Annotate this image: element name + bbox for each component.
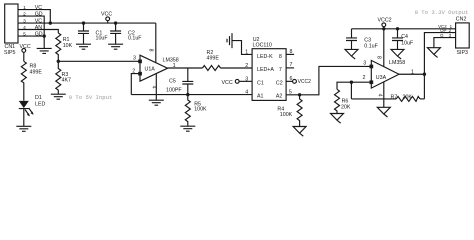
ground GND1 below R5 [180, 126, 195, 131]
svg-text:4: 4 [245, 90, 248, 96]
svg-text:8: 8 [147, 49, 153, 52]
capacitor C1 [78, 23, 89, 44]
svg-text:8: 8 [376, 56, 382, 59]
svg-text:VC: VC [35, 18, 43, 24]
wire CN1 pin1 VC to VCC rail [18, 10, 50, 24]
svg-text:5: 5 [289, 89, 292, 95]
svg-text:20K: 20K [341, 104, 351, 110]
op-amp U3A input marks [370, 65, 374, 69]
wire U2 pin1 LED-K to rotated ground [232, 41, 252, 55]
svg-text:4: 4 [23, 25, 26, 31]
svg-text:VCC2: VCC2 [298, 79, 312, 85]
ground GND2 triangle below U3A pin4 [377, 107, 390, 117]
wire U3A pin8 from VCC2 rail [383, 29, 385, 67]
LED D1 cathode bar and lead [19, 109, 29, 126]
capacitor C3 [346, 29, 357, 49]
junction node rail/pin1 [49, 21, 52, 24]
svg-text:5: 5 [23, 31, 26, 37]
svg-text:3: 3 [363, 61, 366, 67]
LED arrowheads [27, 113, 30, 116]
wire output node vertical to CN2 OP [424, 33, 455, 99]
wire U1A pin8 drop from VCC rail [155, 23, 157, 63]
power VCC symbol above R8 [22, 49, 26, 53]
ground GND2 triangle below CN2 G [427, 48, 440, 58]
svg-text:C4: C4 [401, 34, 408, 40]
resistor R8 zigzag [21, 61, 26, 100]
wire U2 pin7 stub [286, 67, 294, 69]
wire CN1 pin3 VC / VCC rail [18, 22, 156, 24]
svg-text:100K: 100K [194, 107, 207, 113]
svg-text:0.1uF: 0.1uF [128, 36, 142, 42]
svg-text:0 To 3.3V Output: 0 To 3.3V Output [415, 9, 469, 16]
resistor R3 zigzag [56, 61, 61, 94]
svg-text:GD: GD [35, 31, 43, 37]
svg-text:499E: 499E [30, 70, 43, 76]
wire R2 to U2 pin2 LED+A [221, 67, 253, 69]
svg-text:100PF: 100PF [166, 87, 182, 93]
svg-text:3: 3 [245, 76, 248, 82]
svg-text:G: G [440, 33, 444, 38]
ground GND2 triangle below C4 [391, 49, 404, 59]
wire U1A pin4 to ground [155, 74, 157, 100]
wire R1/R3 node to U1A pin3 [58, 60, 140, 62]
capacitor C5 [182, 68, 193, 95]
svg-text:U3A: U3A [376, 75, 387, 81]
svg-text:C1: C1 [257, 80, 264, 86]
svg-text:4: 4 [377, 94, 383, 97]
junction node VCC2 stem [382, 27, 385, 30]
junction node C2 [114, 21, 117, 24]
svg-text:6: 6 [290, 76, 293, 82]
resistor R2 zigzag [203, 66, 221, 71]
LED D1 triangle [19, 101, 29, 108]
svg-text:C5: C5 [169, 79, 176, 85]
resistor R5 zigzag [185, 95, 190, 126]
svg-text:10uF: 10uF [401, 40, 414, 46]
wire U3A output pin1 [399, 73, 424, 75]
wire U1A pin2 feedback loop down to A1 rail [131, 74, 140, 95]
svg-text:VCC: VCC [222, 80, 233, 86]
svg-text:8: 8 [279, 54, 282, 60]
svg-text:D1: D1 [35, 95, 42, 101]
power VCC symbol stub on rail [106, 17, 110, 21]
resistor R6 zigzag [335, 89, 340, 113]
ground GND1 below C2 [108, 44, 123, 49]
junction node C1 [82, 21, 85, 24]
svg-text:A2: A2 [276, 94, 283, 100]
svg-text:C2: C2 [276, 80, 283, 86]
svg-text:1: 1 [173, 63, 176, 69]
ground GND2 triangle below C3 [345, 49, 358, 59]
op-amp U1A triangle [140, 55, 168, 81]
wire U3A pin4 to ground [383, 82, 385, 107]
svg-text:100K: 100K [280, 112, 293, 118]
svg-text:LM358: LM358 [389, 60, 405, 66]
ground GND1 below C1 [76, 44, 91, 49]
svg-text:LED+A: LED+A [257, 67, 274, 73]
junction node R1/R3 [57, 60, 60, 63]
power VCC stub to U2 pin3 C1 [235, 79, 239, 83]
svg-text:0 To 5V Input: 0 To 5V Input [69, 94, 113, 101]
power VCC2 stub on U2 pin6 C2 [286, 80, 293, 82]
svg-text:LM358: LM358 [163, 57, 179, 63]
connector CN2 body [456, 23, 470, 48]
resistor R7 zigzag [396, 96, 420, 101]
svg-text:VCC: VCC [101, 12, 112, 18]
svg-text:LED: LED [35, 102, 45, 108]
LED D1 emission arrows [25, 108, 33, 116]
ground GND2 triangle below R4 [293, 127, 306, 137]
svg-text:2: 2 [245, 63, 248, 69]
svg-text:10K: 10K [63, 43, 73, 49]
svg-text:GD: GD [35, 11, 43, 17]
svg-text:CN1: CN1 [5, 44, 16, 50]
svg-text:1: 1 [245, 50, 248, 56]
svg-text:SIP3: SIP3 [457, 50, 469, 56]
junction node C4 [396, 27, 399, 30]
svg-text:7: 7 [290, 62, 293, 68]
svg-text:10uF: 10uF [96, 36, 109, 42]
ground GND1 below U1A pin4 [149, 100, 164, 105]
svg-text:2: 2 [363, 75, 366, 81]
wire U2 pin5 A2 to U3A pin3 [286, 66, 371, 94]
optocoupler U2 LOC110 box [252, 49, 286, 101]
svg-text:7: 7 [279, 67, 282, 73]
junction node C5/R5 [186, 93, 189, 96]
wire R7 to output node [420, 98, 424, 100]
wire CN1 pin4 AN to R1 [18, 30, 58, 34]
wire U2 pin8 stub [286, 53, 294, 55]
svg-text:2: 2 [132, 69, 135, 75]
junction node U3A pin2 feedback [350, 81, 353, 84]
wire U3A pin2 to R6 [337, 82, 371, 89]
svg-text:4: 4 [151, 86, 157, 89]
svg-text:0.1uF: 0.1uF [364, 44, 378, 50]
svg-text:AN: AN [35, 25, 43, 31]
svg-text:499E: 499E [207, 55, 220, 61]
wire U3A pin2 node down to R7 rail [350, 82, 352, 99]
svg-text:2: 2 [23, 11, 26, 17]
resistor R1 zigzag [56, 33, 61, 61]
svg-text:A1: A1 [257, 94, 264, 100]
wire CN2 pin3 G to ground [434, 38, 456, 48]
svg-text:VC: VC [35, 5, 43, 11]
junction node output/R7/OP [423, 73, 426, 76]
wire feedback rail to R7 [351, 98, 396, 100]
svg-text:U1A: U1A [145, 66, 156, 72]
resistor R4 zigzag [297, 95, 302, 126]
svg-text:20K: 20K [403, 95, 413, 101]
junction node GD [43, 34, 46, 37]
op-amp U3A triangle [371, 60, 399, 88]
ground GND1 below R3 [51, 94, 66, 99]
svg-text:R6: R6 [342, 98, 349, 104]
svg-text:LED-K: LED-K [257, 54, 273, 60]
svg-text:3: 3 [23, 18, 26, 24]
wire CN1 pin2 GD down to pin5 row [18, 16, 44, 36]
power VCC2 symbol above rail [382, 23, 386, 27]
connector CN1 body [5, 4, 18, 43]
svg-text:CN2: CN2 [456, 17, 467, 23]
ground GND2 triangle below R6 [331, 114, 344, 124]
svg-text:1: 1 [411, 69, 414, 75]
svg-text:4K7: 4K7 [62, 78, 71, 84]
svg-text:LOC110: LOC110 [253, 43, 272, 49]
svg-text:VCC: VCC [20, 44, 31, 50]
junction node R4 [298, 93, 301, 96]
svg-text:1: 1 [23, 5, 26, 11]
ground GND1 below D1 [16, 126, 31, 131]
svg-text:SIP5: SIP5 [4, 50, 16, 56]
capacitor C4 [392, 29, 403, 49]
wire U1A output to R2 [168, 67, 203, 69]
ground GND1 rotated at U2 pin1 [227, 33, 232, 48]
wire feedback rail to U2 pin4 A1 [131, 94, 252, 96]
capacitor C2 [110, 23, 121, 44]
svg-text:3: 3 [133, 56, 136, 62]
ground GND1 below CN1 GD [37, 36, 52, 53]
wire CN1 pin5 GD row [18, 35, 44, 37]
wire VCC2 rail [352, 28, 456, 30]
svg-text:R7: R7 [391, 95, 398, 101]
svg-text:VCC2: VCC2 [378, 18, 392, 24]
op-amp U1A input marks [138, 60, 142, 64]
svg-text:8: 8 [290, 49, 293, 55]
